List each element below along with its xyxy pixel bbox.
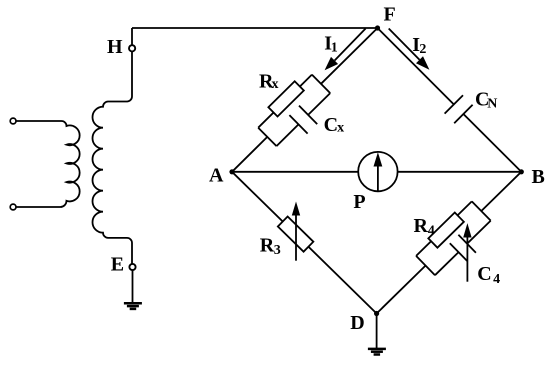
svg-text:x: x: [337, 121, 344, 136]
svg-text:R: R: [260, 235, 275, 257]
svg-text:H: H: [107, 36, 123, 58]
svg-text:x: x: [272, 77, 279, 92]
svg-text:C: C: [324, 114, 338, 136]
svg-text:C: C: [477, 263, 491, 285]
svg-text:3: 3: [274, 243, 281, 258]
svg-text:1: 1: [331, 41, 338, 56]
svg-text:P: P: [353, 191, 365, 213]
svg-text:E: E: [111, 254, 124, 276]
svg-text:F: F: [384, 4, 396, 26]
svg-text:A: A: [209, 165, 224, 187]
svg-text:4: 4: [493, 272, 500, 287]
svg-text:2: 2: [419, 42, 426, 57]
svg-text:N: N: [487, 96, 497, 111]
svg-text:D: D: [350, 312, 364, 334]
svg-text:B: B: [532, 166, 545, 188]
svg-text:R: R: [414, 215, 429, 237]
svg-text:4: 4: [428, 224, 435, 239]
